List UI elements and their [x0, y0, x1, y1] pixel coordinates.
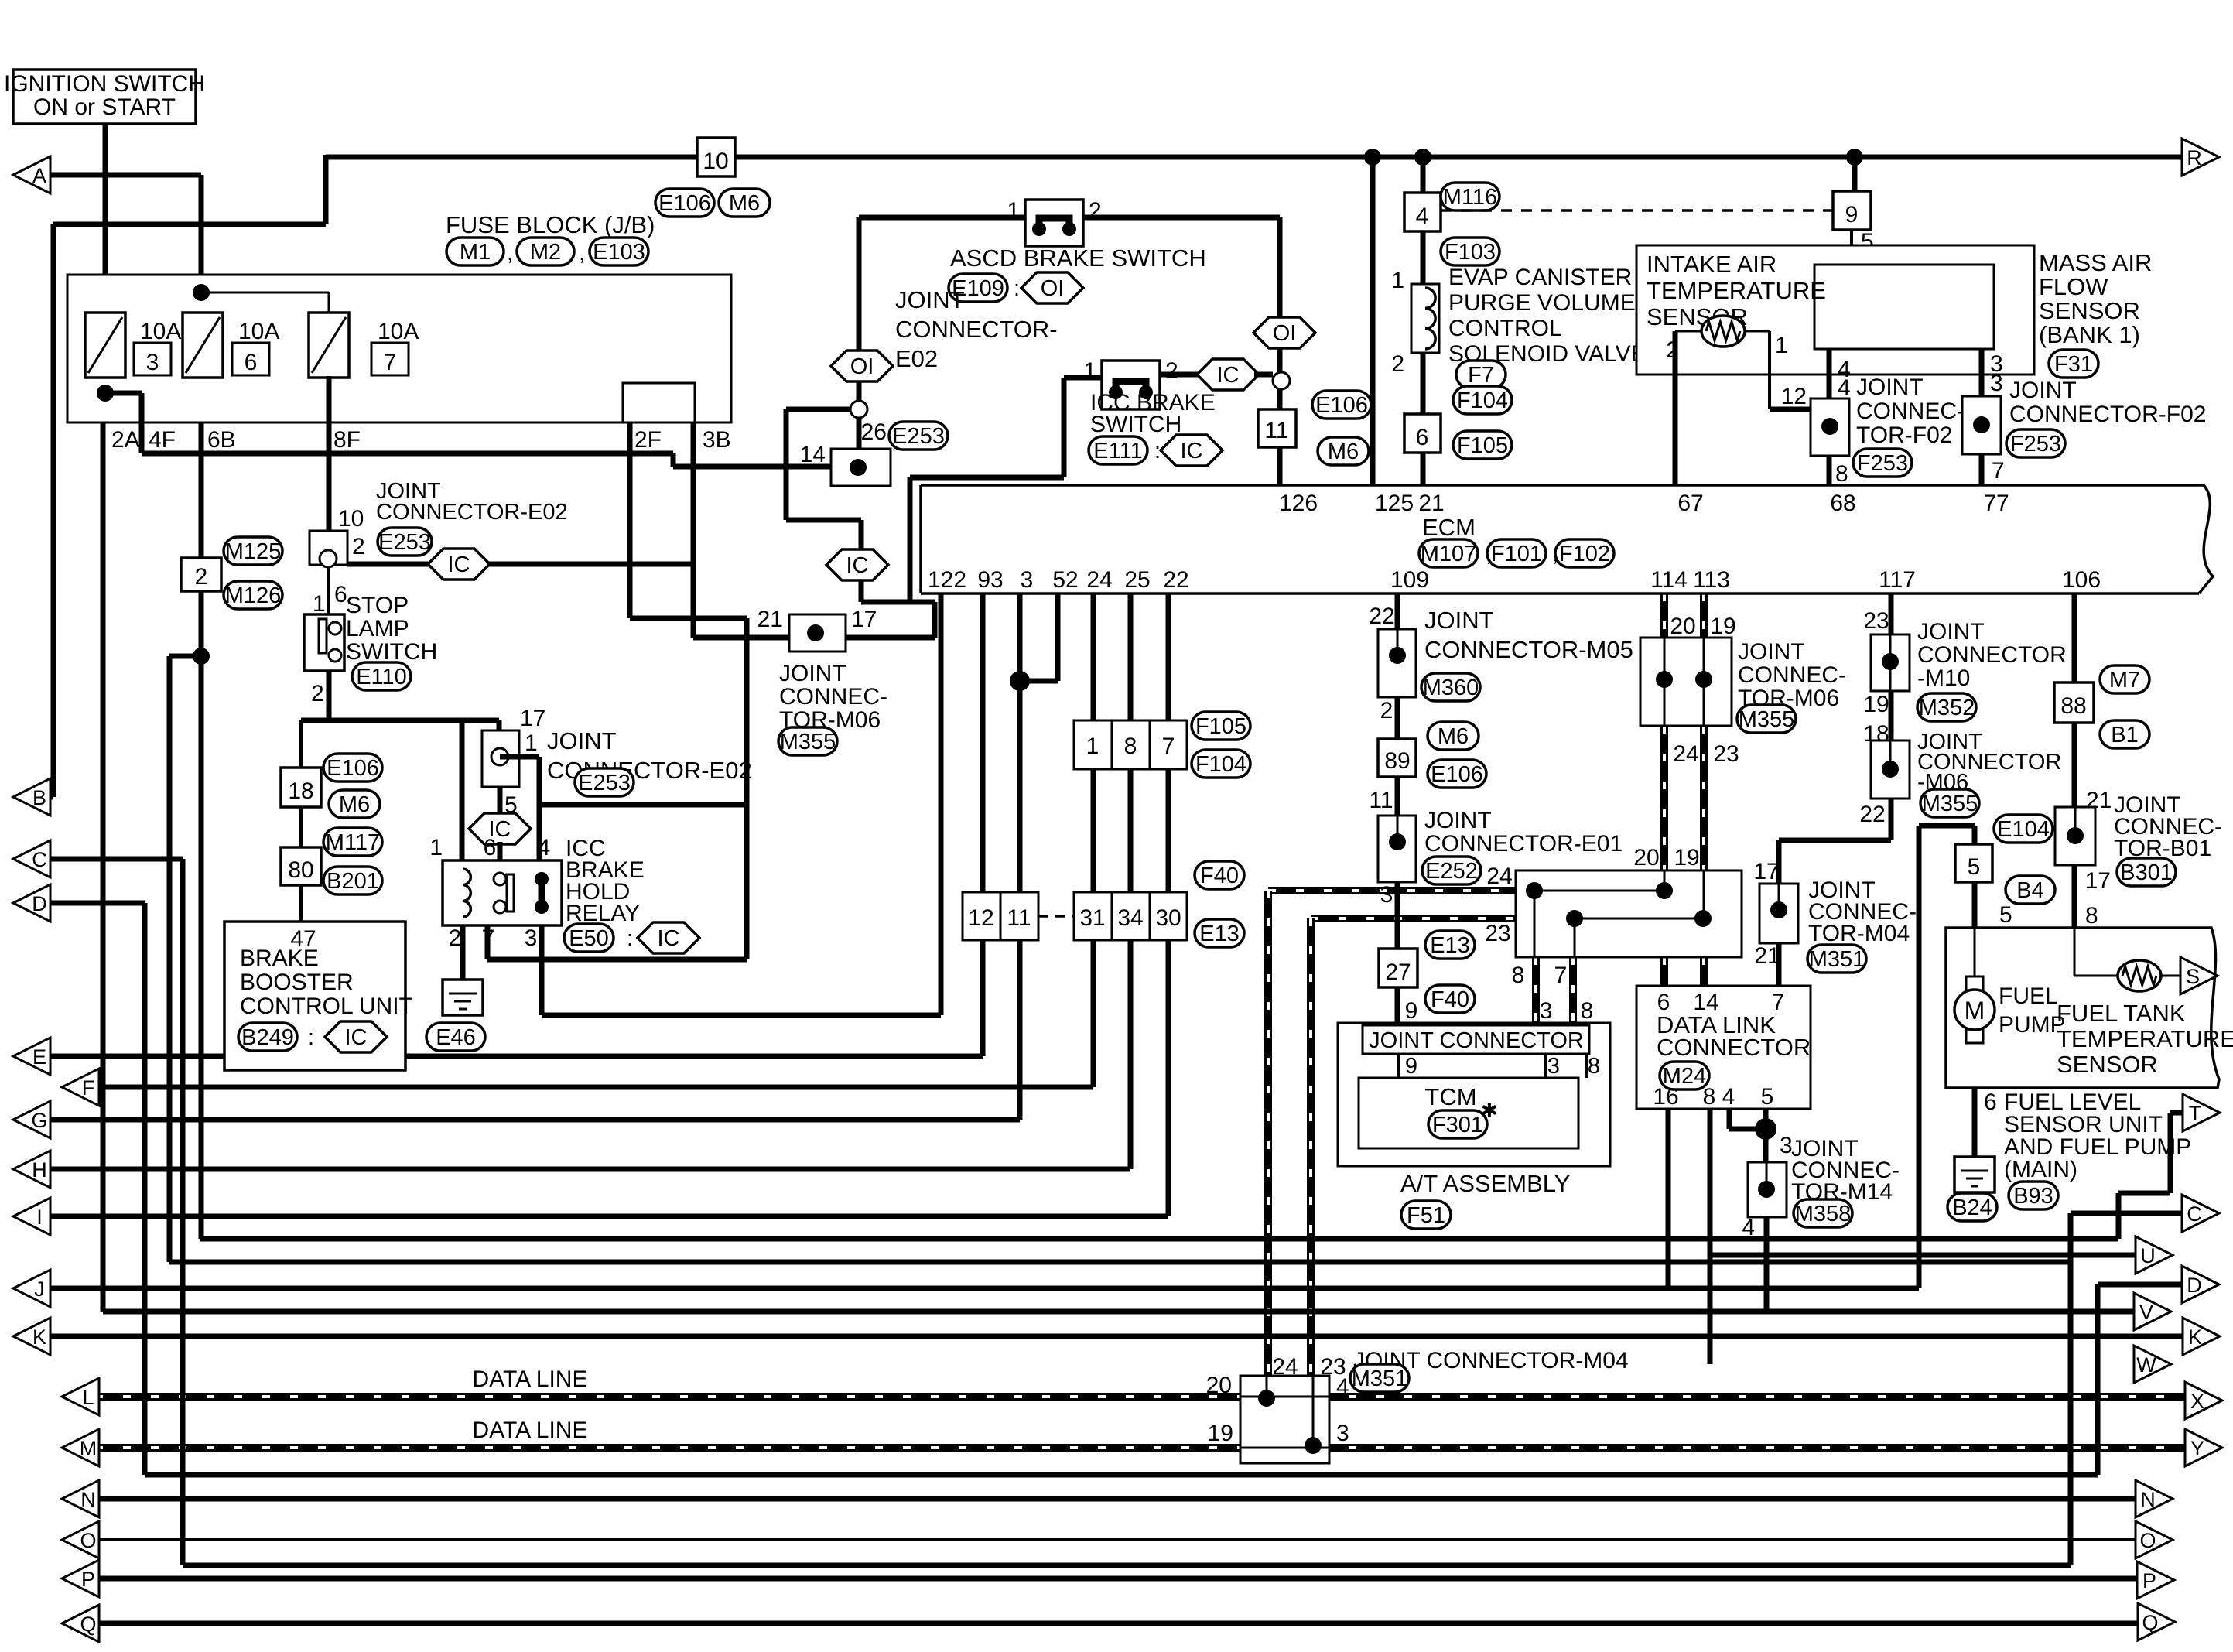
svg-text:JOINT: JOINT	[2009, 378, 2077, 403]
svg-text::: :	[308, 1025, 314, 1050]
svg-text:17: 17	[1753, 859, 1779, 884]
svg-text:11: 11	[1369, 788, 1393, 813]
svg-text:F301: F301	[1432, 1113, 1483, 1137]
svg-text:M6: M6	[1438, 724, 1469, 749]
svg-text:2: 2	[1666, 337, 1679, 363]
svg-text:21: 21	[1418, 491, 1444, 516]
svg-text:E252: E252	[1425, 859, 1478, 884]
svg-text:FLOW: FLOW	[2039, 273, 2108, 300]
svg-text:ASCD BRAKE SWITCH: ASCD BRAKE SWITCH	[950, 245, 1206, 272]
svg-text:109: 109	[1390, 567, 1429, 593]
svg-text:11: 11	[1007, 905, 1031, 931]
svg-text:6B: 6B	[207, 427, 236, 453]
svg-text:19: 19	[1863, 692, 1889, 717]
svg-text:E104: E104	[1997, 817, 2050, 842]
svg-text:25: 25	[1124, 567, 1150, 593]
svg-text:M351: M351	[1352, 1366, 1408, 1391]
svg-text:FUEL TANK: FUEL TANK	[2057, 1000, 2186, 1027]
svg-text:22: 22	[1369, 604, 1394, 629]
svg-text:E111: E111	[1093, 439, 1142, 463]
svg-text:12: 12	[968, 905, 993, 931]
svg-text:MASS AIR: MASS AIR	[2039, 249, 2152, 276]
svg-text:I: I	[36, 1206, 43, 1229]
svg-text:CONNEC-: CONNEC-	[1856, 398, 1965, 424]
svg-text:3: 3	[1547, 1054, 1560, 1079]
svg-text:122: 122	[928, 567, 966, 593]
svg-text:B1: B1	[2111, 723, 2138, 747]
svg-text:B301: B301	[2120, 860, 2173, 885]
svg-text:R: R	[2187, 146, 2202, 169]
svg-text:PURGE VOLUME: PURGE VOLUME	[1448, 290, 1636, 316]
svg-text:5: 5	[1761, 1084, 1774, 1110]
svg-text:F253: F253	[1857, 451, 1908, 476]
svg-text:113: 113	[1693, 567, 1730, 593]
svg-text:117: 117	[1879, 567, 1916, 593]
svg-text:24: 24	[1272, 1354, 1298, 1380]
svg-text:DATA LINE: DATA LINE	[473, 1366, 588, 1392]
svg-text:CONNECTOR-: CONNECTOR-	[895, 316, 1058, 343]
svg-text:K: K	[2188, 1325, 2202, 1349]
svg-text:M355: M355	[1922, 792, 1978, 816]
svg-text:JOINT: JOINT	[1738, 639, 1805, 665]
svg-text:JOINT: JOINT	[1917, 619, 1985, 645]
svg-text:8: 8	[1703, 1084, 1716, 1110]
svg-text:3: 3	[146, 350, 159, 375]
svg-text:CONNEC-: CONNEC-	[1738, 662, 1846, 688]
svg-text:10A: 10A	[238, 319, 279, 344]
svg-text:CONNECTOR-E02: CONNECTOR-E02	[376, 500, 568, 525]
svg-text:2: 2	[311, 681, 324, 706]
svg-text:CONNECTOR: CONNECTOR	[1657, 1034, 1811, 1061]
svg-text:8: 8	[1588, 1054, 1600, 1079]
svg-text:1: 1	[313, 591, 326, 617]
svg-text:12: 12	[1781, 384, 1807, 409]
svg-text:E110: E110	[356, 665, 407, 689]
svg-text:TEMPERATURE: TEMPERATURE	[1647, 277, 1826, 304]
svg-text:7: 7	[1162, 734, 1175, 759]
svg-text:24: 24	[1673, 741, 1698, 767]
svg-text:FUSE BLOCK (J/B): FUSE BLOCK (J/B)	[446, 211, 655, 238]
svg-text:8: 8	[2085, 903, 2098, 929]
svg-text:17: 17	[2085, 868, 2111, 894]
svg-text:F105: F105	[1195, 714, 1246, 739]
svg-text:22: 22	[1859, 802, 1885, 827]
svg-text:BRAKE: BRAKE	[240, 946, 319, 971]
svg-text:X: X	[2190, 1390, 2204, 1413]
svg-text:4: 4	[538, 835, 551, 860]
svg-text:E106: E106	[1431, 762, 1483, 787]
svg-text:2: 2	[352, 534, 365, 559]
svg-text:TOR-M04: TOR-M04	[1808, 921, 1910, 946]
svg-text:JOINT: JOINT	[547, 727, 617, 754]
svg-text:114: 114	[1650, 567, 1688, 593]
svg-text:FUEL: FUEL	[1999, 983, 2058, 1009]
svg-text:8: 8	[1835, 461, 1848, 487]
svg-text:M107: M107	[1421, 542, 1477, 566]
svg-text:JOINT: JOINT	[1856, 375, 1924, 400]
svg-text:IC: IC	[658, 926, 680, 951]
svg-text:19: 19	[1208, 1421, 1233, 1446]
svg-text:7: 7	[1992, 458, 2005, 484]
svg-text:N: N	[2140, 1488, 2156, 1511]
svg-text:A: A	[32, 164, 46, 187]
svg-text:F103: F103	[1445, 240, 1496, 265]
svg-text:30: 30	[1155, 905, 1181, 931]
svg-text:(MAIN): (MAIN)	[2004, 1157, 2077, 1182]
svg-text:2: 2	[449, 925, 462, 951]
svg-text:5: 5	[1968, 854, 1981, 880]
svg-text:SWITCH: SWITCH	[1090, 412, 1181, 437]
svg-text:E46: E46	[436, 1025, 476, 1050]
svg-text:U: U	[2140, 1244, 2156, 1267]
svg-text:F: F	[82, 1076, 95, 1100]
svg-text:B24: B24	[1952, 1195, 1992, 1220]
svg-text:106: 106	[2062, 567, 2101, 593]
svg-text:3: 3	[1540, 998, 1553, 1024]
svg-text:1: 1	[429, 835, 443, 860]
svg-text:A/T ASSEMBLY: A/T ASSEMBLY	[1400, 1170, 1570, 1197]
svg-text:17: 17	[851, 607, 877, 632]
svg-text:10A: 10A	[378, 319, 419, 344]
svg-text:C: C	[2187, 1202, 2202, 1226]
svg-text:SOLENOID VALVE: SOLENOID VALVE	[1448, 341, 1647, 367]
svg-text:23: 23	[1485, 921, 1510, 946]
svg-text:2: 2	[195, 564, 208, 590]
svg-text:LAMP: LAMP	[346, 616, 409, 641]
svg-text:F253: F253	[2010, 432, 2061, 457]
svg-text:S: S	[2186, 965, 2200, 988]
svg-text:125: 125	[1375, 491, 1414, 516]
svg-text:P: P	[81, 1568, 95, 1591]
svg-text:H: H	[32, 1158, 47, 1182]
svg-text:T: T	[2189, 1102, 2202, 1125]
svg-text:F102: F102	[1559, 542, 1610, 566]
svg-text:B249: B249	[241, 1025, 294, 1050]
svg-text:M355: M355	[780, 730, 836, 754]
svg-text:7: 7	[384, 350, 397, 375]
svg-text:M1: M1	[460, 240, 491, 265]
svg-text:1: 1	[1775, 333, 1788, 358]
svg-text:IC: IC	[1181, 439, 1203, 463]
svg-text:F104: F104	[1457, 388, 1508, 413]
svg-text:M351: M351	[1809, 947, 1865, 972]
svg-text:77: 77	[1983, 491, 2009, 516]
svg-text:K: K	[32, 1325, 46, 1349]
svg-text:6: 6	[484, 835, 497, 860]
svg-text:68: 68	[1830, 491, 1855, 516]
svg-text:F31: F31	[2054, 352, 2093, 377]
svg-text:B4: B4	[2016, 878, 2043, 903]
svg-text:E13: E13	[1430, 933, 1470, 958]
svg-text:IC: IC	[345, 1025, 368, 1050]
svg-text:3: 3	[1380, 882, 1393, 908]
svg-text:8: 8	[1124, 734, 1137, 759]
svg-text:3: 3	[1336, 1421, 1349, 1446]
svg-text:6: 6	[1984, 1089, 1997, 1115]
svg-text:20: 20	[1206, 1373, 1232, 1398]
svg-text:1: 1	[525, 730, 538, 756]
svg-text:JOINT: JOINT	[1424, 607, 1494, 634]
svg-text:IC: IC	[448, 552, 470, 577]
svg-text:18: 18	[288, 778, 313, 804]
svg-text:6: 6	[245, 350, 258, 375]
svg-text:23: 23	[1863, 608, 1889, 634]
svg-text:20: 20	[1633, 845, 1659, 870]
svg-text:E106: E106	[658, 191, 711, 216]
svg-text:TCM: TCM	[1424, 1083, 1476, 1110]
svg-text:,: ,	[579, 240, 585, 265]
svg-text:3B: 3B	[703, 427, 731, 453]
svg-text:2A: 2A	[111, 427, 140, 453]
svg-text:19: 19	[1674, 845, 1699, 870]
svg-text:-M10: -M10	[1917, 665, 1970, 691]
svg-text:M355: M355	[1739, 707, 1795, 732]
svg-text:E253: E253	[578, 771, 631, 795]
svg-text:PUMP: PUMP	[1999, 1012, 2066, 1038]
svg-text:14: 14	[800, 442, 826, 467]
svg-text:(BANK 1): (BANK 1)	[2039, 321, 2140, 348]
svg-text:SENSOR: SENSOR	[2057, 1051, 2158, 1078]
svg-text:2F: 2F	[634, 427, 662, 453]
svg-text:CONNECTOR-M05: CONNECTOR-M05	[1424, 636, 1633, 663]
svg-text:CONTROL UNIT: CONTROL UNIT	[240, 994, 413, 1019]
svg-text:4F: 4F	[149, 427, 176, 453]
svg-text:D: D	[2187, 1274, 2202, 1297]
svg-text:B93: B93	[2013, 1184, 2053, 1209]
svg-text:E253: E253	[892, 424, 945, 449]
svg-text:P: P	[2142, 1569, 2156, 1592]
svg-text:93: 93	[977, 567, 1003, 593]
svg-text:INTAKE AIR: INTAKE AIR	[1647, 251, 1776, 278]
svg-text:10: 10	[338, 506, 364, 532]
svg-text:M352: M352	[1919, 696, 1975, 720]
svg-text:B201: B201	[327, 869, 379, 894]
svg-text:SENSOR: SENSOR	[2039, 297, 2140, 324]
svg-text:E50: E50	[569, 926, 609, 951]
svg-text:F101: F101	[1491, 542, 1542, 566]
svg-text:M: M	[1965, 997, 1985, 1024]
svg-text:OI: OI	[1273, 321, 1297, 346]
svg-text:10A: 10A	[140, 319, 181, 344]
svg-text::: :	[627, 926, 633, 951]
svg-text:M125: M125	[225, 539, 282, 564]
svg-text:ECM: ECM	[1422, 514, 1476, 541]
svg-text:F104: F104	[1195, 752, 1246, 777]
svg-text:5: 5	[1999, 902, 2012, 928]
svg-text:Y: Y	[2190, 1437, 2204, 1460]
svg-text:JOINT: JOINT	[779, 661, 846, 686]
svg-text:E253: E253	[378, 530, 431, 555]
svg-text:3: 3	[1990, 371, 2003, 396]
svg-text:23: 23	[1713, 741, 1739, 767]
svg-text:1: 1	[1391, 268, 1404, 293]
svg-text:21: 21	[757, 607, 783, 632]
svg-text:F40: F40	[1200, 864, 1239, 888]
svg-text:22: 22	[1163, 567, 1188, 593]
svg-text:M117: M117	[326, 830, 380, 855]
svg-text:4: 4	[1838, 375, 1851, 401]
svg-text:E106: E106	[1315, 393, 1368, 418]
svg-text:F105: F105	[1457, 433, 1508, 458]
svg-text:V: V	[2139, 1301, 2153, 1324]
svg-text:E02: E02	[895, 345, 938, 372]
svg-text:IC: IC	[846, 553, 869, 578]
svg-text:M6: M6	[729, 191, 760, 216]
svg-text:3: 3	[525, 925, 538, 951]
svg-text:8: 8	[1581, 998, 1594, 1024]
svg-text:F40: F40	[1431, 987, 1469, 1012]
svg-text:2: 2	[1391, 351, 1404, 377]
svg-text:ON or START: ON or START	[33, 94, 176, 120]
svg-text:4: 4	[1416, 204, 1429, 229]
svg-text:16: 16	[1653, 1084, 1678, 1110]
svg-text:4: 4	[1336, 1374, 1349, 1400]
svg-text:RELAY: RELAY	[566, 901, 640, 926]
svg-text:M358: M358	[1795, 1202, 1852, 1226]
svg-text:OI: OI	[1041, 276, 1065, 301]
svg-text:DATA LINE: DATA LINE	[473, 1418, 588, 1443]
svg-text:O: O	[2139, 1529, 2156, 1552]
svg-text:20: 20	[1670, 614, 1695, 639]
svg-text:2: 2	[1165, 358, 1178, 384]
svg-text:EVAP CANISTER: EVAP CANISTER	[1448, 265, 1632, 290]
svg-text:89: 89	[1384, 748, 1410, 774]
svg-text:E103: E103	[593, 240, 645, 265]
svg-text:Q: Q	[2142, 1611, 2158, 1634]
svg-text:34: 34	[1117, 905, 1143, 931]
svg-text:M360: M360	[1423, 676, 1479, 700]
svg-text:E: E	[32, 1045, 46, 1069]
svg-text:126: 126	[1279, 491, 1318, 516]
svg-text:67: 67	[1677, 491, 1703, 516]
svg-text:CONNECTOR-E01: CONNECTOR-E01	[1424, 831, 1623, 857]
svg-text:M6: M6	[1328, 440, 1359, 464]
svg-text:1: 1	[1086, 734, 1099, 759]
svg-text:Q: Q	[80, 1613, 96, 1636]
svg-text:M126: M126	[225, 583, 282, 608]
svg-text:SWITCH: SWITCH	[346, 639, 437, 665]
svg-text:G: G	[31, 1109, 47, 1132]
svg-text:TEMPERATURE: TEMPERATURE	[2057, 1025, 2233, 1052]
svg-text:80: 80	[288, 857, 313, 883]
svg-text:26: 26	[861, 419, 887, 445]
svg-text:IC: IC	[1217, 363, 1240, 388]
svg-text:BOOSTER: BOOSTER	[240, 970, 354, 995]
svg-text:JOINT CONNECTOR: JOINT CONNECTOR	[1369, 1028, 1584, 1053]
svg-text:IGNITION SWITCH: IGNITION SWITCH	[4, 71, 205, 97]
svg-text:2: 2	[1380, 698, 1393, 723]
svg-text:9: 9	[1405, 998, 1418, 1024]
svg-text:4: 4	[1722, 1084, 1735, 1110]
svg-text:M6: M6	[339, 792, 370, 817]
svg-text:CONNECTOR: CONNECTOR	[1917, 642, 2067, 668]
svg-text:4: 4	[1742, 1215, 1755, 1240]
svg-text:OI: OI	[850, 354, 874, 379]
svg-text:CONTROL: CONTROL	[1448, 316, 1562, 341]
svg-text:O: O	[80, 1529, 96, 1552]
svg-text:E106: E106	[327, 756, 379, 781]
svg-text:24: 24	[1486, 864, 1512, 889]
svg-text:8F: 8F	[333, 427, 361, 453]
svg-text:F51: F51	[1407, 1203, 1445, 1228]
svg-text:,: ,	[507, 240, 513, 265]
svg-text:STOP: STOP	[346, 593, 409, 618]
svg-text:L: L	[82, 1386, 94, 1409]
svg-text:17: 17	[520, 706, 545, 731]
svg-text:M116: M116	[1443, 185, 1497, 210]
svg-text:B: B	[32, 786, 46, 809]
svg-text:M: M	[80, 1437, 97, 1460]
svg-text:88: 88	[2060, 693, 2086, 719]
svg-text:W: W	[2136, 1353, 2156, 1377]
svg-text:31: 31	[1079, 905, 1105, 931]
svg-text:TOR-F02: TOR-F02	[1856, 422, 1952, 448]
svg-text:N: N	[80, 1488, 96, 1511]
svg-text:CONNECTOR-F02: CONNECTOR-F02	[2009, 402, 2206, 427]
svg-text:3: 3	[1021, 567, 1034, 593]
svg-text:11: 11	[1264, 418, 1288, 443]
svg-text:9: 9	[1845, 202, 1859, 227]
svg-text:M2: M2	[530, 240, 561, 265]
svg-text:52: 52	[1052, 567, 1078, 593]
svg-text:CONNEC-: CONNEC-	[779, 684, 887, 710]
svg-text:19: 19	[1710, 614, 1735, 639]
svg-text:JOINT: JOINT	[1424, 808, 1492, 833]
svg-text:JOINT: JOINT	[895, 286, 965, 313]
svg-text:J: J	[34, 1277, 45, 1301]
svg-text:10: 10	[703, 149, 728, 174]
svg-text:8: 8	[1512, 963, 1525, 988]
svg-text:D: D	[32, 892, 47, 915]
svg-text:24: 24	[1086, 567, 1112, 593]
svg-text::: :	[1014, 276, 1020, 301]
svg-text:C: C	[32, 848, 47, 871]
svg-text:E13: E13	[1199, 922, 1240, 946]
svg-text:27: 27	[1385, 959, 1411, 985]
svg-text:7: 7	[1554, 963, 1568, 988]
svg-text:M7: M7	[2109, 668, 2140, 693]
svg-text:9: 9	[1405, 1054, 1417, 1079]
svg-text:6: 6	[1416, 425, 1429, 450]
